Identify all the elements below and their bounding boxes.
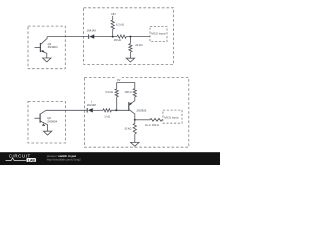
transistor Q2 (NPN 2N3904) [34,110,47,131]
footer bar [0,152,220,165]
wire diode D1 to divider [94,36,117,38]
box MCU network (top-right dashed) [84,8,174,65]
svg-text:10 kΩ: 10 kΩ [124,127,131,131]
label 3V rail backing [115,76,122,81]
svg-text:MCU input: MCU input [151,32,165,36]
resistor R3 22k vertical [129,37,132,59]
svg-text:LAB: LAB [28,158,36,162]
svg-text:1 kΩ: 1 kΩ [104,115,110,119]
resistor R2 36k horizontal [117,35,126,38]
box switch block 1 (top-left dashed) [28,26,65,69]
svg-text:2N3904: 2N3904 [47,119,57,123]
wire Q1 collector to diode D1 [47,36,88,38]
svg-text:http://circuitlab.com/c7ynq2: http://circuitlab.com/c7ynq2 [47,157,81,161]
resistor R6 100 Ohm vertical [133,89,136,101]
node junction B [129,36,131,38]
wire R2 to MCU input [126,36,150,38]
arrow emitter Q1 [41,50,44,53]
logo waveform [6,158,26,161]
svg-text:22 kΩ: 22 kΩ [135,43,142,47]
wire Q2 collector to diode D2 [46,109,87,111]
ground Q1 [43,58,51,62]
svg-text:6.2 kΩ: 6.2 kΩ [116,23,124,27]
wire node D to R7 [135,119,150,121]
resistor R4 1k horizontal [103,109,111,112]
ground R3 [126,58,134,62]
diode D1 1N4148 [88,34,90,38]
resistor R5 3.3k vertical [115,89,118,110]
svg-text:MCU input: MCU input [164,115,178,119]
wire diode D2 to R4 [93,109,103,111]
ground Q2 [43,131,51,135]
box level shifter (bottom-right dashed) [84,78,188,148]
wire R7 to MCU input bottom [161,119,164,121]
transistor Q1 (NPN 2N3904) [35,37,48,58]
wire R4 to Q3 base [112,109,129,111]
box switch block 2 (bottom-left dashed) [28,101,65,143]
arrow emitter Q3 [130,103,133,106]
transistor Q3 (PNP 2N3906) [129,101,135,120]
box MCU input top [150,26,167,41]
node junction C [115,109,117,111]
svg-text:3V: 3V [117,78,121,82]
svg-text:3.3 kΩ: 3.3 kΩ [105,90,113,94]
svg-text:100 Ω: 100 Ω [124,90,131,94]
svg-text:VIN: VIN [111,12,116,16]
svg-text:1N4148: 1N4148 [87,103,97,107]
ground R8 [134,134,136,143]
resistor R7 1k-or-10k horizontal [150,118,162,121]
svg-text:1k or 10k Ω: 1k or 10k Ω [145,123,159,127]
box MCU input bottom [163,110,182,123]
resistor R1 6.2k vertical [111,16,114,37]
node junction D [134,119,136,121]
svg-text:36 kΩ: 36 kΩ [114,38,121,42]
svg-text:1N4148: 1N4148 [87,28,97,32]
svg-text:2N3906: 2N3906 [136,108,146,112]
logo LAB box [26,158,36,162]
resistor R8 10k vertical [133,120,136,134]
svg-text:2N3904: 2N3904 [48,45,58,49]
wire top rail [117,83,135,89]
arrow emitter Q2 [42,123,45,126]
node junction A [112,36,114,38]
diode D2 1N4148 [86,108,88,112]
